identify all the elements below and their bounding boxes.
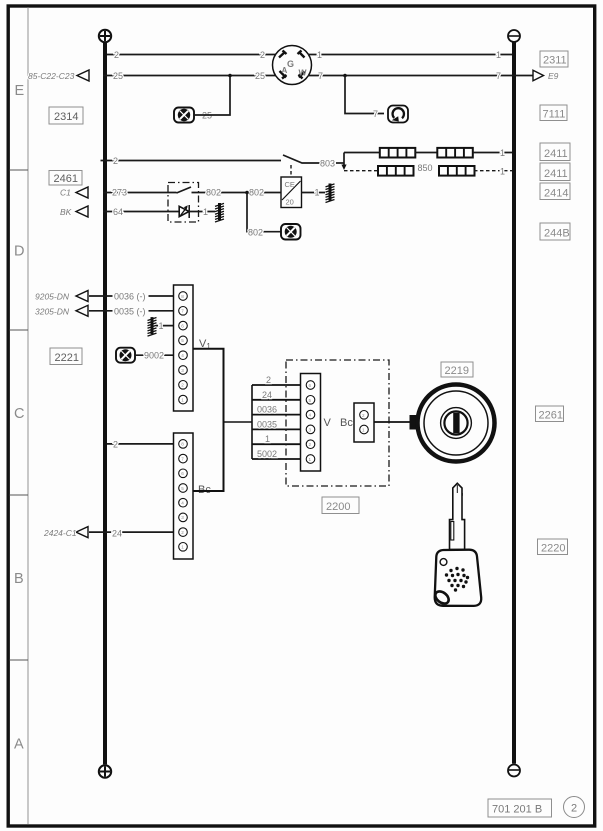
svg-text:Bc: Bc bbox=[340, 417, 353, 429]
svg-text:244B: 244B bbox=[544, 228, 570, 240]
svg-text:1: 1 bbox=[309, 457, 312, 462]
svg-text:7: 7 bbox=[181, 309, 184, 314]
svg-text:1: 1 bbox=[159, 321, 164, 331]
svg-text:2: 2 bbox=[113, 439, 118, 449]
component box 2219 bbox=[441, 362, 473, 377]
svg-text:D: D bbox=[14, 244, 24, 260]
pin for wire 2 bbox=[279, 51, 287, 58]
battery plus terminal top bbox=[99, 30, 111, 42]
sheet number 2 bbox=[564, 797, 585, 818]
svg-text:1: 1 bbox=[496, 50, 501, 60]
component box 2461 bbox=[49, 171, 82, 186]
wire 0036 to strip V1 pin 8 bbox=[89, 295, 179, 297]
svg-text:5002: 5002 bbox=[257, 449, 277, 459]
wire 802 switch to relay bbox=[199, 192, 282, 194]
svg-text:2200: 2200 bbox=[326, 501, 350, 513]
wire 273 from plus bus to door switch bbox=[103, 192, 170, 194]
connector strip V1 bbox=[174, 285, 194, 411]
svg-text:2: 2 bbox=[362, 413, 365, 418]
svg-text:0035: 0035 bbox=[257, 419, 277, 429]
connector Bc of lock bbox=[354, 403, 374, 442]
svg-text:0035 (-): 0035 (-) bbox=[114, 306, 146, 316]
diode bbox=[179, 205, 189, 218]
junction bbox=[228, 74, 232, 78]
svg-text:2411: 2411 bbox=[544, 168, 568, 180]
fuse 1 row 1 bbox=[380, 148, 416, 158]
switch blade 803 bbox=[283, 155, 320, 163]
component box 2311 bbox=[540, 51, 568, 67]
fuse 2 row 2 bbox=[439, 166, 475, 176]
svg-text:64: 64 bbox=[113, 207, 123, 217]
svg-text:7: 7 bbox=[496, 71, 501, 81]
svg-text:1: 1 bbox=[362, 428, 365, 433]
svg-text:8: 8 bbox=[181, 442, 184, 447]
wire 1 from connector to minus bus bbox=[308, 54, 512, 56]
arrow to E9 bbox=[533, 70, 544, 80]
svg-text:273: 273 bbox=[112, 188, 127, 198]
svg-text:802: 802 bbox=[248, 228, 263, 238]
svg-text:7111: 7111 bbox=[543, 109, 566, 121]
component box 2261 bbox=[536, 406, 564, 422]
fuse 1 row 2 bbox=[378, 166, 414, 176]
svg-text:2: 2 bbox=[181, 383, 184, 388]
wire 2 from plus bus to strip Bc pin 8 bbox=[107, 443, 179, 445]
svg-text:C1: C1 bbox=[60, 188, 71, 198]
svg-text:8: 8 bbox=[181, 294, 184, 299]
wire 0035 to strip V1 pin 7 bbox=[89, 310, 179, 312]
svg-text:2: 2 bbox=[181, 530, 184, 535]
wire to fuse row 1 bbox=[344, 152, 379, 154]
svg-text:4: 4 bbox=[181, 501, 184, 506]
key blade tip bbox=[453, 483, 462, 495]
pin for wire 7 bbox=[299, 72, 305, 79]
svg-text:3205-DN: 3205-DN bbox=[35, 306, 70, 316]
svg-text:9205-DN: 9205-DN bbox=[35, 292, 70, 302]
svg-text:2: 2 bbox=[571, 803, 577, 815]
ignition lock face 2219 bbox=[410, 385, 495, 462]
wire relay to ground bbox=[302, 192, 326, 194]
splice icon 25 bbox=[174, 108, 194, 123]
ignition switch connector R circle bbox=[273, 46, 312, 85]
svg-text:850: 850 bbox=[418, 163, 433, 173]
ground G2 bbox=[326, 184, 335, 203]
fuse 2 row 1 bbox=[437, 148, 473, 158]
svg-text:802: 802 bbox=[249, 188, 264, 198]
wire 2 from plus bus to ignition switch connector bbox=[107, 54, 276, 56]
svg-text:3: 3 bbox=[309, 427, 312, 432]
svg-text:2261: 2261 bbox=[539, 410, 563, 422]
svg-text:V: V bbox=[324, 417, 332, 429]
wire 802 branch to splice bbox=[247, 193, 281, 232]
svg-text:0036 (-): 0036 (-) bbox=[114, 292, 146, 302]
component box 2200 bbox=[322, 497, 359, 514]
svg-text:2: 2 bbox=[309, 442, 312, 447]
svg-text:2314: 2314 bbox=[54, 111, 78, 123]
trunk wire V1 to Bc bbox=[193, 349, 224, 491]
svg-text:E9: E9 bbox=[548, 71, 559, 81]
component box 2220 bbox=[538, 539, 568, 555]
supply bus plus bbox=[103, 42, 107, 764]
svg-text:6: 6 bbox=[181, 471, 184, 476]
junction on wire 7 bbox=[343, 74, 347, 78]
wire 24 strip Bc pin 2 across bus to arrow bbox=[89, 531, 179, 533]
svg-text:2219: 2219 bbox=[445, 365, 469, 377]
svg-text:2411: 2411 bbox=[544, 148, 568, 160]
svg-text:G: G bbox=[287, 59, 294, 69]
wire Bc to lock bbox=[374, 421, 411, 423]
svg-text:2220: 2220 bbox=[541, 543, 565, 555]
svg-text:9002: 9002 bbox=[144, 351, 164, 361]
svg-text:2461: 2461 bbox=[54, 173, 78, 185]
key head small circle bbox=[440, 559, 447, 566]
dash link switch to relay bbox=[290, 165, 292, 177]
pin for wire 1 bbox=[298, 51, 305, 58]
splice icon 9002 bbox=[116, 348, 135, 363]
ground G1 bbox=[215, 203, 224, 222]
fan wire 2 bbox=[252, 384, 306, 386]
svg-text:20: 20 bbox=[286, 198, 294, 207]
svg-text:3: 3 bbox=[181, 515, 184, 520]
svg-text:6: 6 bbox=[309, 383, 312, 388]
fan wire 1 bbox=[252, 443, 306, 445]
wire from splice icon to junction on wire 25 bbox=[194, 76, 230, 116]
branch arrow down bbox=[341, 165, 346, 171]
key blade shaft bbox=[450, 493, 465, 550]
svg-text:BK: BK bbox=[60, 207, 72, 217]
arrow to BK bbox=[76, 206, 88, 217]
component box 2414 bbox=[540, 183, 570, 200]
wire diode to ground bbox=[189, 211, 215, 213]
svg-text:2: 2 bbox=[266, 375, 271, 385]
label 0035 (-) bbox=[113, 306, 149, 316]
ground bus minus bbox=[512, 42, 516, 764]
trunk stub to fan bbox=[224, 421, 253, 423]
key 2220 bbox=[433, 483, 481, 606]
svg-text:1: 1 bbox=[181, 545, 184, 550]
dashed wire to fuse row 2 bbox=[344, 170, 378, 172]
splice icon 802 bbox=[281, 224, 301, 240]
svg-text:1: 1 bbox=[500, 167, 505, 177]
svg-text:1: 1 bbox=[500, 148, 505, 158]
label 0036 (-) bbox=[113, 291, 149, 301]
svg-text:1: 1 bbox=[181, 397, 184, 402]
arrow to 85-C22-C23 bbox=[77, 70, 89, 81]
key ring hole bbox=[433, 589, 451, 606]
wire 2 from plus bus to thermal switch bbox=[101, 160, 282, 162]
svg-text:2: 2 bbox=[260, 50, 265, 60]
clock icon bbox=[388, 106, 408, 123]
svg-text:2: 2 bbox=[113, 156, 118, 166]
svg-text:CE: CE bbox=[285, 180, 295, 189]
svg-text:85-C22-C23: 85-C22-C23 bbox=[28, 71, 75, 81]
wire ground to strip V1 pin 6 bbox=[156, 325, 179, 327]
wire 7 branch to clock icon bbox=[345, 76, 384, 114]
wire 25 from plus bus to ignition switch connector bbox=[103, 75, 276, 77]
connector V bbox=[301, 374, 321, 472]
junction 802 bbox=[245, 191, 249, 195]
svg-text:2414: 2414 bbox=[544, 188, 568, 200]
svg-text:25: 25 bbox=[255, 71, 265, 81]
key blade groove bbox=[451, 522, 454, 541]
svg-text:6: 6 bbox=[181, 323, 184, 328]
svg-text:1: 1 bbox=[315, 188, 320, 198]
arrow to C1 bbox=[76, 187, 88, 198]
battery minus terminal top bbox=[508, 30, 520, 42]
wire 9002 to strip V1 pin 4 bbox=[135, 354, 179, 356]
svg-text:24: 24 bbox=[262, 390, 272, 400]
arrow to 3205-DN bbox=[76, 305, 88, 316]
fan wire 0036 bbox=[252, 414, 306, 416]
component box 2221 bbox=[50, 348, 82, 365]
svg-text:5: 5 bbox=[181, 338, 184, 343]
branch vertical bbox=[343, 153, 345, 166]
svg-text:2: 2 bbox=[114, 50, 119, 60]
component box 7111 bbox=[540, 105, 567, 121]
svg-text:803: 803 bbox=[320, 159, 335, 169]
battery plus terminal bottom bbox=[99, 765, 111, 777]
wire 803 to fuse branch bbox=[336, 162, 344, 164]
dashed wire fuse row2 to minus bus bbox=[474, 170, 512, 172]
svg-text:B: B bbox=[14, 571, 24, 587]
svg-text:2311: 2311 bbox=[543, 55, 567, 67]
svg-text:3: 3 bbox=[181, 368, 184, 373]
key head bbox=[435, 550, 482, 606]
fan wire 5002 bbox=[252, 458, 306, 460]
svg-text:1: 1 bbox=[203, 207, 208, 217]
battery minus terminal bottom bbox=[508, 765, 520, 777]
svg-text:C: C bbox=[14, 406, 24, 422]
fan vertical bbox=[251, 385, 253, 459]
pin for wire 25 bbox=[280, 71, 287, 79]
svg-text:7: 7 bbox=[181, 456, 184, 461]
wire 7 from connector across minus bus to E9 bbox=[308, 75, 534, 77]
ground G3 bbox=[148, 317, 157, 336]
component box 2314 bbox=[49, 107, 83, 124]
svg-text:24: 24 bbox=[112, 529, 122, 539]
svg-text:5: 5 bbox=[181, 486, 184, 491]
fan wire 0035 bbox=[252, 428, 306, 430]
svg-text:A: A bbox=[282, 66, 288, 75]
svg-text:7: 7 bbox=[318, 71, 323, 81]
svg-text:701 201 B: 701 201 B bbox=[492, 804, 542, 816]
svg-text:4: 4 bbox=[309, 413, 312, 418]
arrow to 9205-DN bbox=[76, 291, 88, 302]
svg-text:4: 4 bbox=[181, 353, 184, 358]
ignition lock unit dash-dot box bbox=[286, 360, 389, 486]
component box 2411 bbox=[540, 143, 570, 161]
relay coil box bbox=[281, 177, 302, 208]
svg-text:A: A bbox=[14, 737, 24, 753]
svg-text:2424-C1: 2424-C1 bbox=[43, 528, 77, 538]
arrow to 2424-C1 bbox=[76, 527, 88, 538]
key head dot cluster bbox=[445, 567, 469, 592]
svg-text:1: 1 bbox=[265, 434, 270, 444]
svg-text:5: 5 bbox=[309, 398, 312, 403]
component box 2411 second bbox=[540, 163, 570, 181]
wire between fuses row 1 bbox=[415, 152, 437, 154]
svg-text:25: 25 bbox=[113, 71, 123, 81]
svg-text:W: W bbox=[299, 68, 308, 78]
wire fuse row1 to minus bus bbox=[473, 152, 512, 154]
switch unit dash-dot box bbox=[168, 183, 199, 223]
wire 64 from plus bus to diode bbox=[103, 211, 179, 213]
svg-text:802: 802 bbox=[206, 188, 221, 198]
component box 244B bbox=[540, 223, 570, 240]
connector strip Bc bbox=[174, 433, 194, 559]
svg-text:0036: 0036 bbox=[257, 405, 277, 415]
svg-text:7: 7 bbox=[373, 109, 378, 119]
door switch blade bbox=[170, 187, 199, 193]
svg-text:E: E bbox=[15, 83, 25, 99]
fan wire 24 bbox=[252, 399, 306, 401]
title block 701 201 B bbox=[488, 799, 552, 817]
svg-text:1: 1 bbox=[317, 50, 322, 60]
svg-text:2221: 2221 bbox=[55, 352, 79, 364]
